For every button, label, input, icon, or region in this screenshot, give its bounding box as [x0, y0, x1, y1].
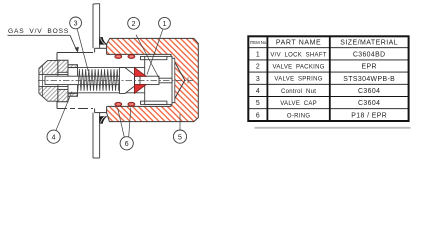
centerline (dash-dot) with cone tick — [38, 79, 193, 81]
svg-text:GAS V/V BOSS: GAS V/V BOSS — [8, 28, 69, 35]
svg-text:5: 5 — [256, 100, 260, 107]
label GAS V/V BOSS with underline and arrow leader — [8, 28, 79, 53]
svg-text:STS304WPB-B: STS304WPB-B — [343, 76, 395, 83]
svg-text:C3604: C3604 — [358, 88, 380, 95]
svg-text:SIZE/MATERIAL: SIZE/MATERIAL — [340, 40, 398, 47]
balloon leader lines — [56, 29, 180, 137]
balloon 5 — [173, 130, 186, 143]
balloon 3 — [70, 17, 82, 29]
washer and spring seat (hatched sections) — [58, 60, 78, 101]
lock shaft tip through guide — [140, 76, 172, 84]
valve cap body outline and cone recess — [107, 38, 199, 121]
spring bore wall lines — [68, 67, 150, 92]
svg-text:C3604BD: C3604BD — [353, 51, 386, 58]
parts list table — [248, 36, 410, 128]
svg-text:3: 3 — [74, 20, 78, 27]
svg-text:5: 5 — [178, 134, 182, 141]
bulkhead plate wall — [93, 4, 100, 158]
svg-text:P18 / EPR: P18 / EPR — [351, 112, 387, 119]
svg-text:6: 6 — [125, 141, 129, 148]
balloon 1 — [159, 17, 171, 29]
svg-text:6: 6 — [256, 112, 260, 119]
svg-text:VALVE SPRING: VALVE SPRING — [274, 77, 322, 83]
svg-text:PART NAME: PART NAME — [276, 40, 321, 47]
svg-text:1: 1 — [163, 21, 167, 28]
valve assembly sectional drawing — [8, 4, 199, 158]
svg-text:Control Nut: Control Nut — [281, 89, 316, 95]
svg-text:ITEM No: ITEM No — [250, 40, 267, 45]
svg-text:V/V LOCK SHAFT: V/V LOCK SHAFT — [270, 52, 326, 58]
balloon 6 — [120, 137, 133, 150]
svg-text:VALVE PACKING: VALVE PACKING — [273, 65, 325, 71]
balloon 2 — [128, 17, 140, 29]
balloon 4 — [47, 130, 60, 143]
valve cap body item 5 (red hatched section) — [107, 38, 199, 121]
table drop shadow line — [255, 127, 411, 129]
v/v lock shaft item 1 — [45, 76, 172, 84]
svg-text:1: 1 — [256, 51, 260, 58]
fillet weld bottom (plate to boss) — [99, 116, 107, 124]
svg-text:O-RING: O-RING — [287, 113, 310, 119]
o-rings item 6 (red) — [115, 55, 135, 107]
svg-text:2: 2 — [256, 64, 260, 71]
fillet weld top (plate to boss) — [99, 37, 107, 45]
svg-text:VALVE CAP: VALVE CAP — [280, 101, 317, 107]
svg-text:EPR: EPR — [362, 64, 377, 71]
svg-text:2: 2 — [132, 21, 136, 28]
spring retainer plug — [120, 68, 135, 94]
valve spring item 3 coils — [78, 69, 119, 91]
control nut item 4 (hatched section) — [39, 60, 58, 101]
valve packing item 2 (red wedges) — [134, 67, 136, 93]
shaft guide gland (flanged bushing) — [141, 56, 173, 104]
svg-text:4: 4 — [52, 134, 56, 141]
svg-text:4: 4 — [256, 88, 260, 95]
svg-text:C3604: C3604 — [358, 100, 380, 107]
svg-text:3: 3 — [256, 76, 260, 83]
gas valve boss block outline — [57, 48, 107, 112]
